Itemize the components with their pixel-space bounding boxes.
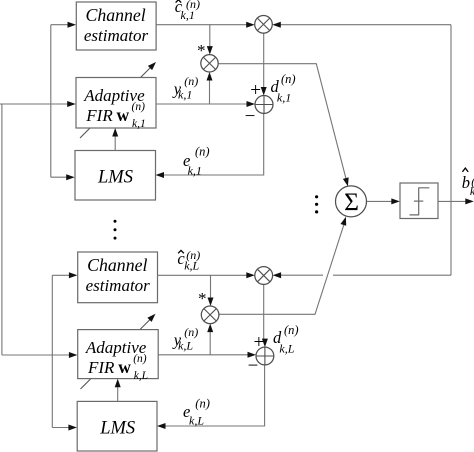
multiplier circle conj 1 [201, 55, 218, 72]
svg-text:*: * [198, 289, 207, 308]
svg-text:k,1: k,1 [178, 88, 192, 102]
multiplier cross feedback 1 [257, 18, 269, 30]
svg-text:k,1: k,1 [188, 164, 202, 178]
svg-text:k,1: k,1 [277, 91, 291, 105]
svg-text:Channel: Channel [85, 5, 145, 25]
arrow into LMS 1 left [66, 174, 75, 180]
wire c-hat branch down 1 [209, 25, 211, 47]
wire into LMS 2 [52, 427, 69, 429]
box channel estimator 2 [78, 252, 158, 303]
svg-text:estimator: estimator [86, 276, 151, 295]
box text channel estimator 2 [86, 255, 151, 295]
wire LMS to FIR 2 [117, 387, 119, 402]
wire feedback top horizontal [281, 24, 452, 26]
label y 1 [172, 74, 199, 102]
svg-text:(n): (n) [132, 101, 146, 113]
arrow into multiplier 2 left [246, 272, 255, 278]
svg-text:LMS: LMS [99, 418, 135, 438]
svg-text:estimator: estimator [84, 26, 149, 45]
arrow into decision box [391, 198, 400, 204]
box adaptive FIR 2 [78, 330, 159, 379]
svg-text:+: + [250, 80, 261, 101]
svg-text:LMS: LMS [97, 168, 133, 188]
svg-text:Σ: Σ [344, 187, 359, 216]
arrow into LMS 2 left [68, 425, 77, 431]
box decision device [400, 183, 438, 219]
label d 2 [273, 323, 299, 356]
svg-text:k,L: k,L [184, 259, 199, 273]
svg-text:k: k [470, 184, 474, 198]
arrow into LMS 1 right (error) [156, 172, 165, 178]
wire y branch up 2 [209, 331, 211, 355]
wire multiplier output down 2 [263, 284, 265, 339]
multiplier circle feedback 1 [255, 15, 273, 33]
arrow into conj multiplier 1 bottom [207, 72, 213, 81]
box text channel estimator 1 [84, 5, 149, 45]
arrow into FIR 2 bottom (weights) [115, 379, 121, 388]
wire feedback bottom horizontal left segment [281, 274, 323, 276]
wire error down-left 2 [165, 365, 265, 426]
arrow into sum top [343, 177, 349, 186]
wire feedback vertical [450, 25, 452, 276]
wire feedback bottom horizontal right segment [333, 274, 451, 276]
sum circle [336, 186, 367, 217]
arrow into conj multiplier 2 top [208, 298, 214, 307]
wire decision to output [438, 200, 466, 202]
decision device step symbol [410, 188, 430, 215]
svg-text:(n): (n) [195, 397, 210, 411]
wire into LMS 1 [51, 176, 67, 178]
svg-text:*: * [197, 41, 206, 60]
wire branch vertical top group [50, 25, 52, 178]
arrow into adder 1 left [247, 101, 256, 107]
label e 1 [183, 145, 210, 178]
box LMS 1 [75, 151, 156, 201]
arrow into adder 2 left [248, 352, 257, 358]
arrow into adder 2 top [262, 339, 268, 348]
svg-text:(n): (n) [281, 72, 296, 86]
wire LMS to FIR 1 [114, 136, 116, 151]
dots right group [315, 195, 318, 213]
dots left group [114, 220, 117, 240]
arrow into channel estimator 2 [69, 272, 78, 278]
arrow into FIR 2 [69, 352, 78, 358]
wire y branch up 1 [209, 80, 211, 104]
adder cross 1 [255, 96, 273, 114]
label c-hat 2 [177, 248, 200, 273]
svg-text:(n): (n) [184, 74, 198, 88]
adaptation arrow FIR 1 [80, 68, 151, 139]
box LMS 2 [77, 401, 157, 451]
label b-hat output [462, 168, 474, 198]
wire sum to decision [367, 200, 393, 202]
svg-text:k,L: k,L [134, 370, 148, 382]
svg-text:(n): (n) [195, 145, 210, 159]
svg-text:+: + [254, 332, 265, 353]
svg-text:k,L: k,L [178, 339, 193, 353]
wire combiner branch 1 [218, 64, 346, 179]
svg-text:(n): (n) [284, 323, 299, 337]
wire c-hat line 1 [156, 24, 247, 26]
arrow into adder 1 top [261, 87, 267, 96]
multiplier cross conj 1 [203, 57, 215, 69]
wire y line 2 [158, 354, 248, 356]
wire y line 1 [156, 103, 247, 105]
arrow into FIR 1 [67, 101, 76, 107]
svg-text:w: w [117, 105, 130, 125]
svg-text:(n): (n) [133, 353, 147, 365]
adder cross 2 [256, 347, 274, 365]
multiplier cross feedback 2 [257, 269, 270, 282]
arrow into conj multiplier 2 bottom [207, 324, 213, 333]
label d 1 [271, 72, 296, 105]
wire input main horizontal (bottom) [2, 354, 69, 356]
wire multiplier output down 1 [263, 33, 265, 88]
label c-hat 1 [175, 0, 200, 22]
wire error down-left 1 [163, 114, 264, 176]
box text adaptive FIR 1 [83, 86, 145, 125]
multiplier cross conj 2 [204, 309, 216, 321]
svg-text:(n): (n) [184, 325, 198, 339]
arrow into channel estimator 1 [68, 22, 77, 28]
box adaptive FIR 1 [76, 78, 156, 129]
svg-text:k,L: k,L [189, 414, 204, 428]
wire input left vertical [1, 104, 3, 355]
wire branch vertical bottom group [51, 275, 53, 427]
label e 2 [183, 397, 210, 428]
box text adaptive FIR 2 [85, 338, 147, 377]
svg-text:k,L: k,L [279, 342, 294, 356]
svg-text:k,1: k,1 [181, 8, 195, 22]
arrow into FIR 1 bottom (weights) [112, 128, 118, 137]
svg-text:b: b [462, 173, 470, 192]
adder circle 1 [255, 96, 273, 114]
svg-text:−: − [248, 356, 259, 377]
svg-text:−: − [245, 106, 256, 127]
svg-text:FIR: FIR [85, 106, 113, 125]
wire c-hat branch down 2 [210, 275, 212, 298]
svg-text:FIR: FIR [87, 358, 115, 377]
wire into channel estimator 1 [51, 24, 68, 26]
arrow into multiplier 1 left [246, 22, 255, 28]
arrow into conj multiplier 1 top [207, 46, 213, 55]
svg-text:k,1: k,1 [132, 118, 146, 130]
svg-text:w: w [118, 357, 131, 377]
adder circle 2 [256, 347, 274, 365]
arrow output right edge [465, 198, 474, 204]
label y 2 [172, 325, 199, 353]
multiplier circle conj 2 [201, 306, 219, 324]
arrow into multiplier 2 right (feedback) [273, 272, 282, 278]
arrow into sum bottom [340, 217, 346, 226]
wire combiner branch 2 [219, 225, 344, 315]
adaptation arrow FIR 2 [81, 320, 151, 390]
box channel estimator 1 [76, 2, 156, 50]
arrow into LMS 2 right (error) [157, 423, 166, 429]
wire input main horizontal (top) [0, 103, 68, 105]
svg-text:Channel: Channel [87, 255, 147, 275]
multiplier circle feedback 2 [255, 267, 273, 285]
wire into channel estimator 2 [52, 274, 69, 276]
arrow into multiplier 1 right (feedback) [272, 22, 281, 28]
wire c-hat line 2 [158, 274, 248, 276]
